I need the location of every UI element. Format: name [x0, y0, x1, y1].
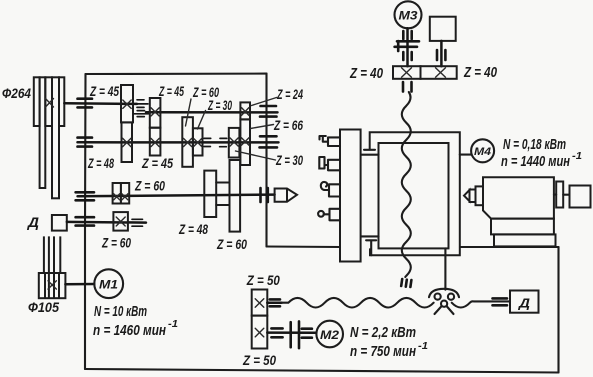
wire to M4: [460, 154, 472, 156]
flexible shaft vertical: [402, 92, 411, 277]
gear block Z60-Z30 on shaft II: [182, 117, 202, 167]
svg-text:Z = 24: Z = 24: [276, 86, 303, 102]
tailstock base lower: [494, 234, 556, 246]
svg-text:Ф264: Ф264: [2, 85, 31, 101]
coupling marks shaft II right: [217, 138, 229, 146]
label N=10kW: [94, 303, 147, 320]
label Z=60 shaft IV: [101, 235, 131, 251]
label n=750: [350, 341, 428, 360]
svg-text:Z = 48: Z = 48: [178, 221, 208, 237]
solenoid shaft: [440, 41, 443, 66]
bearing above gear M3: [403, 52, 411, 60]
bearing under M3: [403, 31, 411, 39]
flexible shaft end hatch: [401, 279, 411, 287]
label Z=60 shaft III: [134, 178, 165, 194]
svg-text:Ф105: Ф105: [28, 299, 59, 315]
spindle nose cone: [275, 189, 297, 202]
bearing upper Z50: [270, 299, 280, 306]
label Ф264: [2, 85, 31, 101]
bearing shaft II right wall: [260, 136, 278, 147]
svg-text:Z = 40: Z = 40: [349, 65, 383, 82]
bearing shaft III left wall: [76, 192, 94, 200]
gearbox housing top wall: [86, 73, 267, 76]
tool 1: [320, 136, 341, 146]
tailstock screw: [554, 182, 570, 208]
turret connector top: [361, 150, 378, 155]
motor M1: [94, 269, 123, 298]
tool 3: [321, 182, 340, 197]
svg-text:Д: Д: [27, 214, 39, 230]
label Z=66 with leader: [251, 117, 304, 133]
svg-text:Z = 60: Z = 60: [101, 235, 131, 251]
label Z=50 top: [246, 272, 280, 288]
sliding double gear on shaft III: [113, 183, 130, 204]
shaft I right segment: [146, 111, 278, 114]
tailstock base: [491, 219, 554, 235]
universal joint: [429, 289, 459, 314]
coupling before box Д: [493, 298, 508, 305]
label Z=48 lower left: [87, 155, 114, 171]
gear Z48 on shaft III: [204, 171, 216, 217]
bearing solenoid shaft: [437, 50, 445, 60]
tool 2: [319, 157, 340, 170]
flexible shaft after joint: [452, 301, 493, 307]
svg-text:N = 0,18 кВт: N = 0,18 кВт: [503, 136, 566, 153]
tailstock center cone: [464, 186, 483, 205]
svg-text:Z = 50: Z = 50: [242, 352, 276, 368]
label Z=45 second upper: [158, 83, 184, 99]
svg-text:М1: М1: [99, 278, 118, 292]
shaft II: [78, 141, 279, 144]
box Д left: [52, 215, 67, 231]
turret connector bottom: [361, 235, 378, 237]
label n=1440: [501, 151, 582, 170]
gear bar Z40 right: [421, 66, 457, 79]
wire housing-to-turret: [267, 245, 341, 248]
pulley Ф105: [39, 273, 66, 298]
motor M4: [471, 139, 494, 162]
svg-text:М3: М3: [399, 9, 418, 23]
svg-text:Z = 45: Z = 45: [141, 155, 173, 171]
svg-text:n = 1440 мин: n = 1440 мин: [501, 153, 570, 170]
plate clutch M2: [291, 321, 299, 348]
tool 4: [318, 209, 340, 221]
label Z=48 shaft III: [178, 221, 208, 237]
gear block Z45-Z48 on shafts I-II: [121, 85, 133, 162]
label N=2.2kW: [350, 324, 416, 341]
label Z=40 left: [349, 65, 383, 82]
coupling marks shaft IV: [132, 219, 143, 226]
bearing shaft IV left wall: [76, 217, 94, 225]
svg-text:-1: -1: [168, 319, 178, 330]
base frame bottom: [85, 369, 559, 373]
svg-text:Z = 45: Z = 45: [158, 83, 184, 99]
shaft lower Z50 to M2: [267, 331, 315, 334]
shaft III: [78, 195, 275, 197]
label Z=30 lower with leader: [236, 151, 304, 168]
motor M3: [395, 1, 422, 28]
base frame right wall: [557, 247, 559, 373]
svg-text:Z = 30: Z = 30: [275, 152, 303, 168]
gear bar Z40 left: [393, 66, 421, 79]
label Ф105: [28, 299, 59, 315]
gearbox housing right wall: [265, 74, 267, 247]
bearing shaft I left wall: [78, 99, 93, 108]
friction clutch on shaft I: [134, 100, 149, 117]
flexible shaft horizontal: [282, 298, 434, 308]
base frame top right segment: [460, 246, 559, 248]
label Z=60 tall gear: [216, 236, 247, 252]
gear block Z45-Z45: [150, 98, 161, 156]
wire to box Д: [493, 300, 511, 302]
label n=1460: [93, 319, 178, 339]
bearing shaft II left wall: [78, 138, 93, 147]
svg-text:Z = 45: Z = 45: [89, 83, 119, 99]
svg-text:Z = 30: Z = 30: [207, 97, 232, 113]
svg-text:Z = 50: Z = 50: [246, 272, 280, 288]
solenoid box: [430, 17, 456, 41]
label Z=24 with leader: [252, 86, 304, 106]
label Z=30 with leader: [198, 97, 233, 129]
shaft I left segment: [64, 102, 137, 105]
svg-text:n = 1460 мин: n = 1460 мин: [93, 322, 166, 339]
motor M2: [316, 321, 343, 348]
joint shaft vertical: [444, 248, 446, 289]
headstock inner box: [379, 143, 449, 248]
label Z=60 with leader: [186, 84, 220, 126]
gear block Z24-Z66: [240, 102, 250, 165]
label Z=50 bottom: [242, 352, 276, 368]
label Д left: [27, 214, 39, 230]
pulley Ф264: [34, 77, 65, 198]
label Z=40 right: [463, 64, 497, 81]
coupling marks shaft II left: [203, 138, 214, 146]
svg-text:М2: М2: [320, 328, 339, 342]
bearing shaft I right wall: [260, 106, 277, 117]
svg-text:Z = 60: Z = 60: [216, 236, 247, 252]
stub shaft upper Z50: [267, 302, 281, 305]
shaft M3 vertical: [406, 28, 409, 66]
gear Z60 on shaft IV: [113, 212, 128, 231]
gear Z60 tall on shaft III: [230, 160, 241, 232]
svg-text:М4: М4: [474, 146, 491, 158]
label N=0.18kW: [503, 136, 566, 153]
svg-text:-1: -1: [572, 151, 582, 162]
svg-text:Z = 48: Z = 48: [87, 155, 114, 171]
bearing shaft III right wall: [261, 188, 268, 202]
gear Z30 on shaft II: [229, 128, 240, 158]
shaft IV: [67, 221, 146, 224]
bearing lower Z50: [271, 328, 282, 337]
box Д right: [510, 291, 539, 313]
wire pulley to M1: [65, 283, 94, 286]
tailstock body: [483, 177, 554, 218]
label Z=45 upper left: [89, 83, 119, 99]
tailstock handwheel: [570, 186, 591, 208]
svg-text:Z = 40: Z = 40: [463, 64, 497, 81]
bearing before M2: [302, 329, 312, 338]
label Z=45 second lower: [141, 155, 173, 171]
pulley Ф105 belts: [44, 236, 60, 273]
svg-text:N = 10 кВт: N = 10 кВт: [94, 303, 147, 320]
svg-text:-1: -1: [418, 341, 428, 352]
gear cluster sleeve: [216, 183, 229, 206]
bearing below gear bar: [403, 82, 412, 92]
svg-text:Z = 66: Z = 66: [273, 117, 303, 133]
headstock outer box: [370, 132, 460, 255]
gearbox housing left wall: [84, 74, 87, 369]
svg-text:N = 2,2 кВт: N = 2,2 кВт: [350, 324, 416, 341]
flange coupling M3: [395, 41, 419, 51]
svg-text:n = 750 мин: n = 750 мин: [350, 343, 416, 360]
gear block Z50-Z50: [252, 290, 268, 349]
svg-text:Z = 60: Z = 60: [134, 178, 165, 194]
svg-text:Д: Д: [518, 296, 531, 311]
bracket detail bottom: [366, 240, 376, 255]
turret slide: [340, 130, 361, 262]
